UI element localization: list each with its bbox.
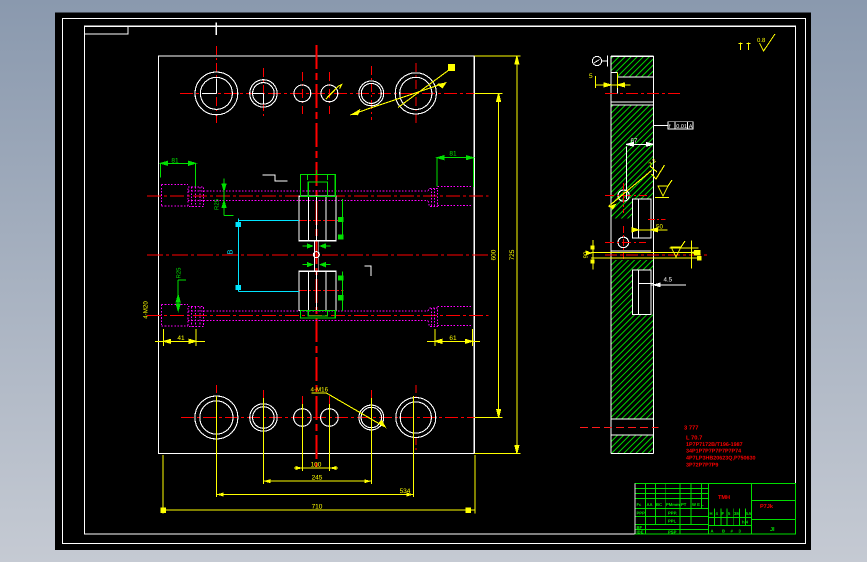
gate insert outline above block1 (green) — [301, 170, 343, 318]
sprue pin between blocks — [314, 241, 316, 272]
vertical centerlines bottom holes — [215, 385, 217, 397]
dim 534 — [216, 494, 413, 496]
middle grid — [708, 509, 751, 526]
svg-text:600: 600 — [491, 249, 498, 260]
hole A5 — [359, 81, 384, 106]
svg-text:Fc: Fc — [637, 502, 643, 507]
hatch region lower-middle — [611, 260, 654, 419]
svg-text:4-M20: 4-M20 — [143, 301, 150, 319]
svg-text:B: B — [226, 249, 235, 254]
centerline rod row 2 — [147, 315, 489, 317]
fold mark rectangle top-left — [85, 26, 129, 34]
centerline rod row 1 — [147, 195, 489, 197]
svg-text:F: F — [722, 511, 725, 516]
gate arrows between blocks (green) — [303, 244, 331, 267]
svg-text:L 70.7: L 70.7 — [686, 435, 702, 442]
svg-text:W E L: W E L — [692, 502, 704, 507]
centering tick top — [215, 23, 217, 35]
guide rod 2 hidden outline (magenta) — [162, 304, 472, 326]
hatch region bottom — [611, 435, 654, 454]
svg-text:BC: BC — [656, 502, 662, 507]
finish mark right (yellow) — [671, 247, 681, 257]
svg-text:Jl: Jl — [770, 527, 775, 533]
title block main verticals — [707, 484, 709, 535]
header labels row (green) — [637, 502, 705, 535]
hole A4 — [321, 85, 338, 102]
step mark upper (white) — [263, 175, 288, 181]
svg-text:534: 534 — [400, 488, 411, 495]
hole B4 — [321, 409, 339, 427]
right cells — [752, 499, 796, 501]
svg-text:A: A — [689, 124, 693, 130]
svg-text:41: 41 — [177, 335, 185, 342]
dim 50 (yellow) — [632, 228, 667, 232]
title block left edge highlight — [634, 484, 636, 535]
hole A2 — [250, 80, 277, 107]
svg-text:A: A — [711, 529, 714, 534]
centerline bottom hole row — [181, 417, 480, 419]
counterbore notch B — [632, 270, 651, 315]
svg-text:AA: AA — [647, 502, 653, 507]
hole B1 bottom-left counterbore — [195, 396, 238, 439]
centerline main axis — [315, 45, 317, 467]
svg-text:B: B — [722, 529, 725, 534]
hatch region upper-middle — [611, 105, 654, 219]
svg-text:90: 90 — [583, 251, 590, 258]
leader with square end (yellow) — [398, 68, 452, 108]
dim 600 right (yellow) — [475, 93, 503, 417]
center block 2 (white) — [299, 271, 336, 310]
vertical centerlines top holes — [215, 46, 217, 125]
hidden line bottom band (red dashed) — [580, 426, 659, 428]
hole S2 in section — [618, 237, 629, 248]
hole S1 in section — [618, 190, 629, 201]
center block 1 (white) — [299, 196, 336, 240]
svg-text:H: H — [710, 511, 713, 516]
inner border frame — [85, 26, 796, 534]
svg-text:3 777: 3 777 — [684, 425, 699, 432]
svg-text:0.8: 0.8 — [757, 37, 766, 44]
title block outer — [635, 484, 796, 535]
hole A1 top-left counterbore — [195, 72, 238, 115]
revision grid columns — [646, 484, 702, 535]
dim 41 left (yellow) — [155, 329, 205, 346]
svg-text:3P72P7P7P9: 3P72P7P7P9 — [686, 463, 718, 469]
bottom dim chain extension lines (yellow) — [163, 396, 475, 514]
revision grid rows — [635, 489, 709, 530]
svg-text:PPL: PPL — [668, 519, 677, 524]
svg-text:R25: R25 — [214, 198, 221, 210]
guide rod 1 hidden outline (magenta) — [162, 185, 472, 207]
svg-text:100: 100 — [311, 462, 322, 469]
hole B2 — [250, 404, 277, 431]
surface finish 3.2 (yellow) — [650, 165, 665, 179]
hole B3 — [294, 409, 312, 427]
datum target symbol — [592, 56, 601, 65]
svg-text:0.01: 0.01 — [676, 124, 687, 130]
svg-text:50: 50 — [656, 223, 663, 230]
dim 61 right (yellow) — [427, 329, 480, 346]
svg-text:IDE: IDE — [637, 530, 644, 535]
hole A6 top-right counterbore — [395, 73, 436, 114]
centerline middle — [147, 254, 489, 256]
dim 245 — [263, 480, 371, 482]
section line B (cyan) — [236, 218, 299, 291]
hole B6 bottom-right counterbore — [396, 398, 436, 438]
svg-text:h 4: h 4 — [742, 520, 749, 525]
plate outline (plan view) — [159, 56, 475, 453]
datum frame F 0.01 A — [668, 122, 693, 129]
svg-text:710: 710 — [312, 503, 323, 510]
svg-text:245: 245 — [312, 475, 323, 482]
dim 725 right (yellow) — [475, 56, 521, 453]
dia dim rod1 (green) — [222, 179, 234, 216]
svg-text:4P7LP3HB20623Q,P750630: 4P7LP3HB20623Q,P750630 — [686, 456, 756, 462]
leader double arrow (yellow) — [351, 83, 447, 115]
counterbore notch A — [632, 199, 651, 238]
finish mark mid (yellow) — [658, 186, 668, 196]
hole B5 — [359, 405, 384, 430]
dim 710 — [163, 509, 475, 511]
svg-text:81: 81 — [449, 151, 457, 158]
svg-text:TMH: TMH — [718, 495, 730, 501]
svg-text:725: 725 — [509, 249, 516, 260]
section column outline — [611, 56, 654, 453]
step notch top-left — [611, 72, 618, 93]
section centerlines (red) — [605, 93, 708, 259]
svg-text:3M: 3M — [734, 511, 740, 516]
svg-text:5A: 5A — [746, 511, 751, 516]
width dims mid height (yellow) — [586, 240, 701, 269]
leader hole A4 (yellow) — [326, 85, 342, 100]
dia dim rod2 (green) — [176, 280, 186, 311]
centerline row B lower — [299, 289, 344, 291]
step mark lower (white) — [364, 266, 370, 276]
svg-text:61: 61 — [449, 335, 457, 342]
svg-text:PT: PT — [681, 502, 687, 507]
svg-text:P7Jk: P7Jk — [760, 503, 774, 510]
svg-text:R25: R25 — [176, 267, 183, 279]
svg-text:5: 5 — [589, 73, 593, 80]
hatch region top — [611, 56, 654, 77]
svg-text:PMmm: PMmm — [666, 502, 680, 507]
centerline row B upper — [299, 219, 344, 221]
centerline top hole row — [180, 92, 474, 94]
hole band 1 edges — [611, 77, 654, 435]
svg-text:1P7P7172B/T196-1987: 1P7P7172B/T196-1987 — [686, 442, 743, 448]
leader to hole S1 (yellow) — [609, 171, 652, 207]
svg-text:34P1P7P7P7P7P7P74: 34P1P7P7P7P7P7P74 — [686, 449, 741, 455]
dim 100 — [294, 467, 338, 469]
svg-text:PSP: PSP — [668, 530, 677, 535]
svg-text:PPP.: PPP. — [668, 511, 677, 516]
svg-text:4.5: 4.5 — [664, 277, 673, 284]
roughness note top-right (yellow) — [739, 34, 776, 51]
svg-text:PPP: PPP — [637, 511, 646, 516]
hole A3 — [294, 85, 311, 102]
